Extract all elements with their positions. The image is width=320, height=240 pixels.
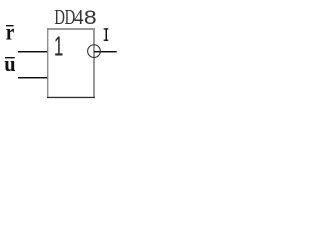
inversion bubble on output xyxy=(88,45,101,58)
wire: input u to gate xyxy=(18,77,47,78)
svg-text:1: 1 xyxy=(54,30,64,61)
logic gate U1 body: left edge xyxy=(47,28,48,97)
logic gate U1 (DD48) body: top edge xyxy=(47,28,95,30)
svg-text:u: u xyxy=(4,51,16,76)
background xyxy=(0,0,132,113)
overline of label r xyxy=(6,25,14,26)
svg-text:4: 4 xyxy=(74,6,84,29)
svg-text:8: 8 xyxy=(84,8,97,29)
output node label I (serif, drawn as strokes) xyxy=(104,28,109,41)
overline of label u xyxy=(5,57,15,58)
logic gate U1 body: bottom edge xyxy=(47,97,95,98)
wire: input r to gate xyxy=(18,51,47,52)
reference designator label DD48 xyxy=(54,5,96,29)
svg-text:r: r xyxy=(6,19,15,45)
logic gate U1 body: right edge xyxy=(93,28,95,97)
wire: gate output to node I xyxy=(94,51,117,52)
svg-text:D: D xyxy=(54,5,65,28)
